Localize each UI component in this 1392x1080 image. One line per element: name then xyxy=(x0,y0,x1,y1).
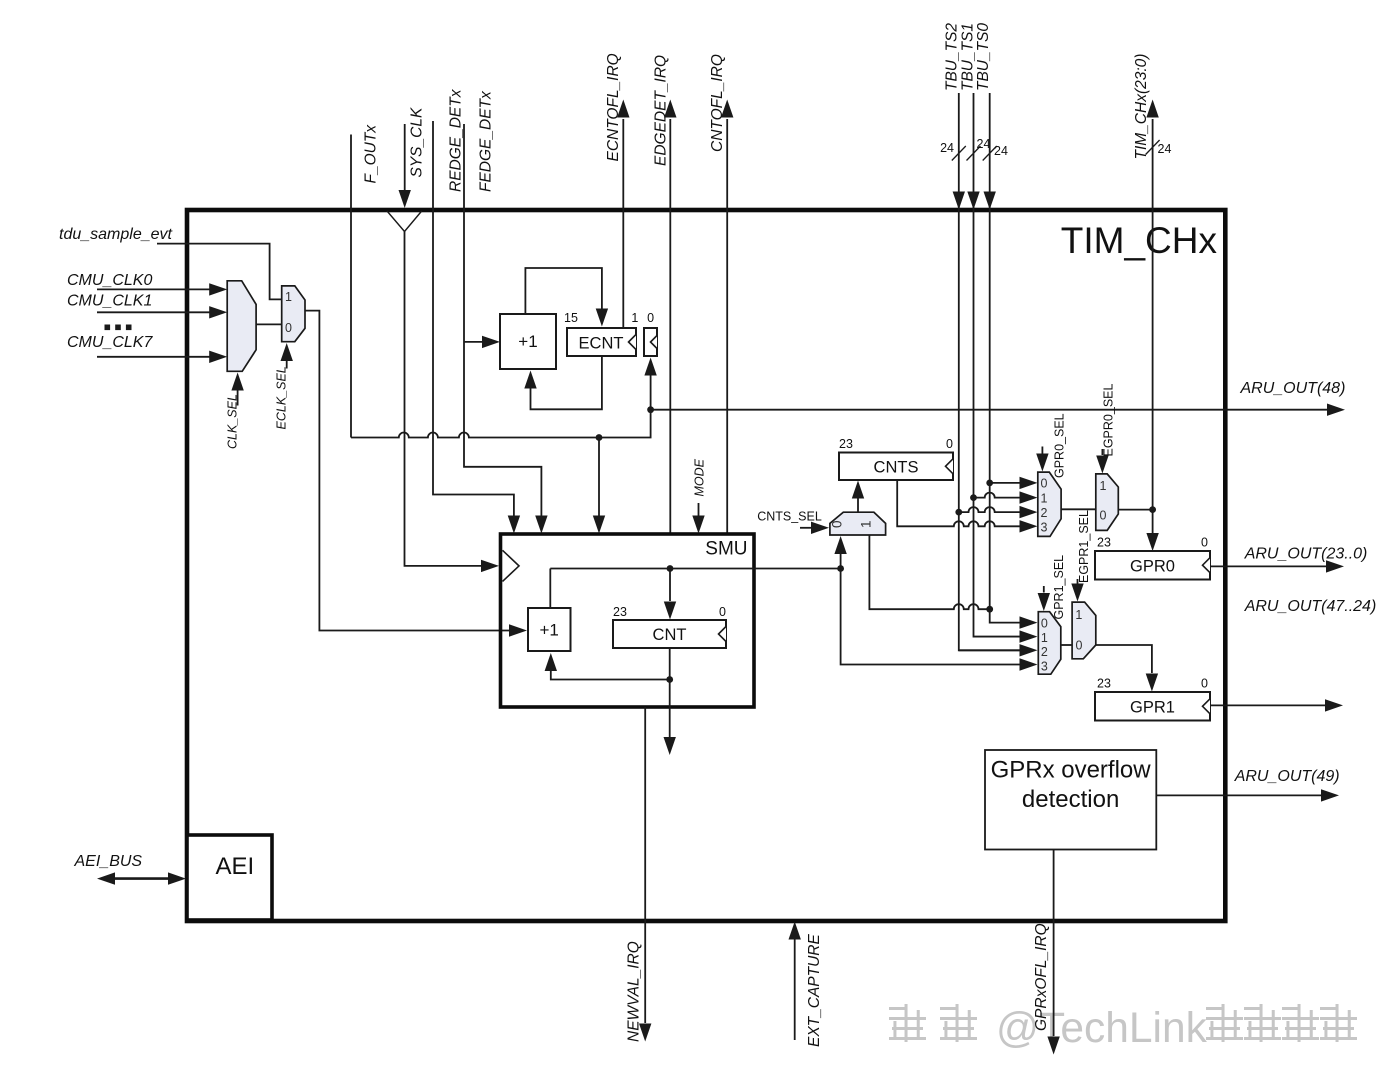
svg-text:CMU_CLK7: CMU_CLK7 xyxy=(67,334,153,351)
svg-text:23: 23 xyxy=(1097,536,1111,550)
svg-text:1: 1 xyxy=(1041,491,1048,505)
SMU internal output wire xyxy=(550,568,840,570)
svg-text:ARU_OUT(47..24): ARU_OUT(47..24) xyxy=(1244,598,1377,615)
mux EGPR1_SEL xyxy=(1072,602,1096,659)
register CNT xyxy=(613,620,726,648)
svg-text:CNTOFL_IRQ: CNTOFL_IRQ xyxy=(709,54,726,152)
wire GPR1 out ARU_OUT(47..24) xyxy=(1210,704,1325,706)
wire GPR1_SEL out xyxy=(1061,644,1072,646)
register ECNT xyxy=(567,328,636,356)
svg-text:0: 0 xyxy=(1201,677,1208,691)
svg-text:24: 24 xyxy=(940,141,954,155)
svg-text:ARU_OUT(23..0): ARU_OUT(23..0) xyxy=(1244,546,1368,563)
svg-text:GPRxOFL_IRQ: GPRxOFL_IRQ xyxy=(1033,923,1050,1031)
svg-text:REDGE_DETx: REDGE_DETx xyxy=(448,88,465,192)
wire SMU out to CNTS_SEL 0 and GPR1_SEL 3 xyxy=(840,554,842,569)
svg-text:GPR1: GPR1 xyxy=(1130,699,1175,717)
svg-text:MODE: MODE xyxy=(693,458,707,496)
svg-text:3: 3 xyxy=(1041,659,1048,673)
svg-text:0: 0 xyxy=(1041,477,1048,491)
svg-text:GPR1_SEL: GPR1_SEL xyxy=(1052,555,1066,620)
mux CLK_SEL xyxy=(227,281,256,372)
mux ECLK_SEL xyxy=(282,286,305,342)
wire ECNT to +1 loop bottom xyxy=(531,356,602,409)
svg-text:EGPR1_SEL: EGPR1_SEL xyxy=(1077,510,1091,583)
TBU_TS2 input xyxy=(959,93,1020,650)
svg-text:0: 0 xyxy=(1076,639,1083,653)
svg-text:EDGEDET_IRQ: EDGEDET_IRQ xyxy=(653,55,670,166)
CMU_CLK1 input xyxy=(97,311,211,313)
svg-text:EXT_CAPTURE: EXT_CAPTURE xyxy=(806,934,823,1047)
svg-text:1: 1 xyxy=(1100,479,1107,493)
CNT feedback to +1 xyxy=(669,648,671,680)
svg-text:+1: +1 xyxy=(518,332,537,351)
svg-text:TBU_TS1: TBU_TS1 xyxy=(960,23,977,91)
mux EGPR0_SEL xyxy=(1096,474,1119,531)
svg-text:ARU_OUT(49): ARU_OUT(49) xyxy=(1234,768,1340,785)
wire TBU_TS2 to GPR0_SEL 2 xyxy=(959,507,1020,512)
svg-text:24: 24 xyxy=(994,144,1008,158)
SMU box xyxy=(501,534,755,707)
+1 incrementer (SMU) xyxy=(528,608,571,651)
AEI_BUS bidirectional arrow xyxy=(112,877,171,880)
wire ECLK_SEL out to SMU +1 xyxy=(305,311,509,631)
CMU_CLK0 input xyxy=(97,288,211,290)
svg-text:2: 2 xyxy=(1041,645,1048,659)
svg-text:TIM_CHx: TIM_CHx xyxy=(1061,220,1218,261)
register CNTS xyxy=(839,453,953,481)
svg-text:TBU_TS0: TBU_TS0 xyxy=(975,23,992,91)
wire GPR0_SEL out xyxy=(1061,508,1096,510)
wire to CNT xyxy=(669,569,671,602)
svg-text:0: 0 xyxy=(1201,536,1208,550)
svg-text:1: 1 xyxy=(285,290,292,304)
EXT_CAPTURE input xyxy=(794,939,796,1040)
TBU_TS0 input xyxy=(989,93,991,609)
svg-text:SYS_CLK: SYS_CLK xyxy=(409,107,426,177)
svg-text:23: 23 xyxy=(1097,677,1111,691)
register GPR1 xyxy=(1095,692,1210,721)
svg-text:CNTS: CNTS xyxy=(874,459,919,477)
TBU_TS1 input xyxy=(974,93,1021,637)
svg-text:GPRx overflow: GPRx overflow xyxy=(991,757,1152,784)
FEDGE_DETx input line xyxy=(464,124,541,517)
svg-text:NEWVAL_IRQ: NEWVAL_IRQ xyxy=(626,941,643,1042)
svg-text:3: 3 xyxy=(1041,520,1048,534)
svg-text:0: 0 xyxy=(647,311,654,325)
ECNT edge bit box xyxy=(644,328,657,356)
wire CNTS_SEL out to CNTS xyxy=(857,499,859,513)
svg-text:CLK_SEL: CLK_SEL xyxy=(226,394,240,449)
svg-text:AEI_BUS: AEI_BUS xyxy=(74,853,143,870)
watermark xyxy=(889,1004,1357,1052)
wire EGPR0_SEL out to GPR0 / TIM_CHx(23:0) xyxy=(1118,509,1152,511)
svg-text:0: 0 xyxy=(1100,509,1107,523)
svg-text:0: 0 xyxy=(830,520,845,528)
svg-text:CMU_CLK0: CMU_CLK0 xyxy=(67,272,152,289)
+1 incrementer (ECNT) xyxy=(500,314,556,369)
svg-text:CNTS_SEL: CNTS_SEL xyxy=(757,510,822,524)
register GPR0 xyxy=(1095,551,1210,580)
EDGEDET_IRQ output xyxy=(669,119,671,533)
svg-text:1: 1 xyxy=(631,311,638,325)
svg-text:FEDGE_DETx: FEDGE_DETx xyxy=(478,90,495,192)
svg-text:EGPR0_SEL: EGPR0_SEL xyxy=(1102,383,1116,456)
svg-text:CNT: CNT xyxy=(653,626,687,644)
svg-text:@TechLink: @TechLink xyxy=(996,1005,1208,1052)
wire CLK_SEL out to ECLK_SEL 0 xyxy=(256,323,282,325)
mux CNTS_SEL xyxy=(830,512,886,535)
svg-text:ARU_OUT(48): ARU_OUT(48) xyxy=(1240,380,1346,397)
REDGE_DETx input line xyxy=(433,121,514,517)
svg-text:0: 0 xyxy=(285,321,292,335)
wire TBU_TS1 to GPR1_SEL 1 xyxy=(974,636,1021,638)
CNTOFL_IRQ output xyxy=(726,119,728,533)
wire ARU_OUT(49) xyxy=(1156,794,1321,796)
F_OUTx input line xyxy=(350,135,352,438)
svg-text:23: 23 xyxy=(839,437,853,451)
svg-text:1: 1 xyxy=(1075,608,1082,622)
wire TBU_TS1 to GPR0_SEL 1 xyxy=(974,493,1021,498)
wire junction to SMU xyxy=(598,438,600,517)
wire CNTS out to GPR0_SEL 3 xyxy=(897,480,1020,526)
AEI box xyxy=(187,835,272,920)
NEWVAL_IRQ output xyxy=(644,707,646,1023)
GPRxOFL_IRQ output xyxy=(1053,850,1055,1037)
svg-text:AEI: AEI xyxy=(215,853,254,880)
wire ARU_OUT(48) xyxy=(651,409,1327,411)
GPRx overflow detection box xyxy=(985,750,1156,850)
tdu_sample_evt input xyxy=(157,244,282,300)
svg-text:ECLK_SEL: ECLK_SEL xyxy=(275,366,289,429)
MODE select input xyxy=(698,503,700,517)
ellipsis xyxy=(105,325,111,331)
svg-text:SMU: SMU xyxy=(705,539,747,560)
svg-text:0: 0 xyxy=(946,437,953,451)
svg-text:tdu_sample_evt: tdu_sample_evt xyxy=(59,226,173,243)
wire +1 to ECNT loop top xyxy=(525,268,602,314)
svg-text:23: 23 xyxy=(613,605,627,619)
svg-text:TBU_TS2: TBU_TS2 xyxy=(944,23,961,91)
svg-text:0: 0 xyxy=(1041,616,1048,630)
svg-text:F_OUTx: F_OUTx xyxy=(363,124,380,184)
svg-text:GPR0: GPR0 xyxy=(1130,558,1175,576)
wire EGPR1_SEL out to GPR1 xyxy=(1096,645,1152,673)
svg-text:0: 0 xyxy=(719,605,726,619)
svg-text:24: 24 xyxy=(1158,142,1172,156)
wire FEDGE line to +1 xyxy=(464,341,483,343)
SMU clock chevron input xyxy=(481,560,499,572)
svg-text:1: 1 xyxy=(858,520,873,528)
CNTS_SEL select input xyxy=(800,527,812,529)
TIM_CHx(23:0) output to top / GPR0 input xyxy=(1152,119,1154,534)
ECNTOFL_IRQ output xyxy=(622,119,624,328)
CMU_CLK7 input xyxy=(97,356,211,358)
wire to edge bit box xyxy=(650,375,652,410)
wire GPR0 out ARU_OUT(23..0) xyxy=(1210,565,1326,567)
CNT output down stub xyxy=(669,680,671,738)
wire CNTS_SEL 1 from TBU_TS0 xyxy=(869,535,989,609)
svg-text:ECNTOFL_IRQ: ECNTOFL_IRQ xyxy=(605,53,622,161)
svg-text:ECNT: ECNT xyxy=(579,335,624,353)
wire TBU_TS0 to GPR0_SEL 0 xyxy=(990,482,1020,484)
mux GPR0_SEL xyxy=(1038,472,1061,536)
TIM_CHx main box xyxy=(187,210,1225,921)
wire TBU_TS2 to GPR1_SEL 2 xyxy=(959,649,1020,651)
svg-text:+1: +1 xyxy=(540,621,559,640)
svg-text:TIM_CHx(23:0): TIM_CHx(23:0) xyxy=(1133,54,1150,160)
wire F_OUTx to edge-bit and ARU_OUT(48) xyxy=(351,410,651,438)
svg-text:15: 15 xyxy=(564,311,578,325)
svg-text:CMU_CLK1: CMU_CLK1 xyxy=(67,293,152,310)
svg-text:GPR0_SEL: GPR0_SEL xyxy=(1053,413,1067,478)
svg-text:24: 24 xyxy=(977,137,991,151)
svg-text:2: 2 xyxy=(1041,506,1048,520)
mux GPR1_SEL xyxy=(1038,612,1061,675)
svg-text:1: 1 xyxy=(1041,631,1048,645)
SYS_CLK input xyxy=(404,124,406,191)
svg-text:detection: detection xyxy=(1022,786,1119,813)
